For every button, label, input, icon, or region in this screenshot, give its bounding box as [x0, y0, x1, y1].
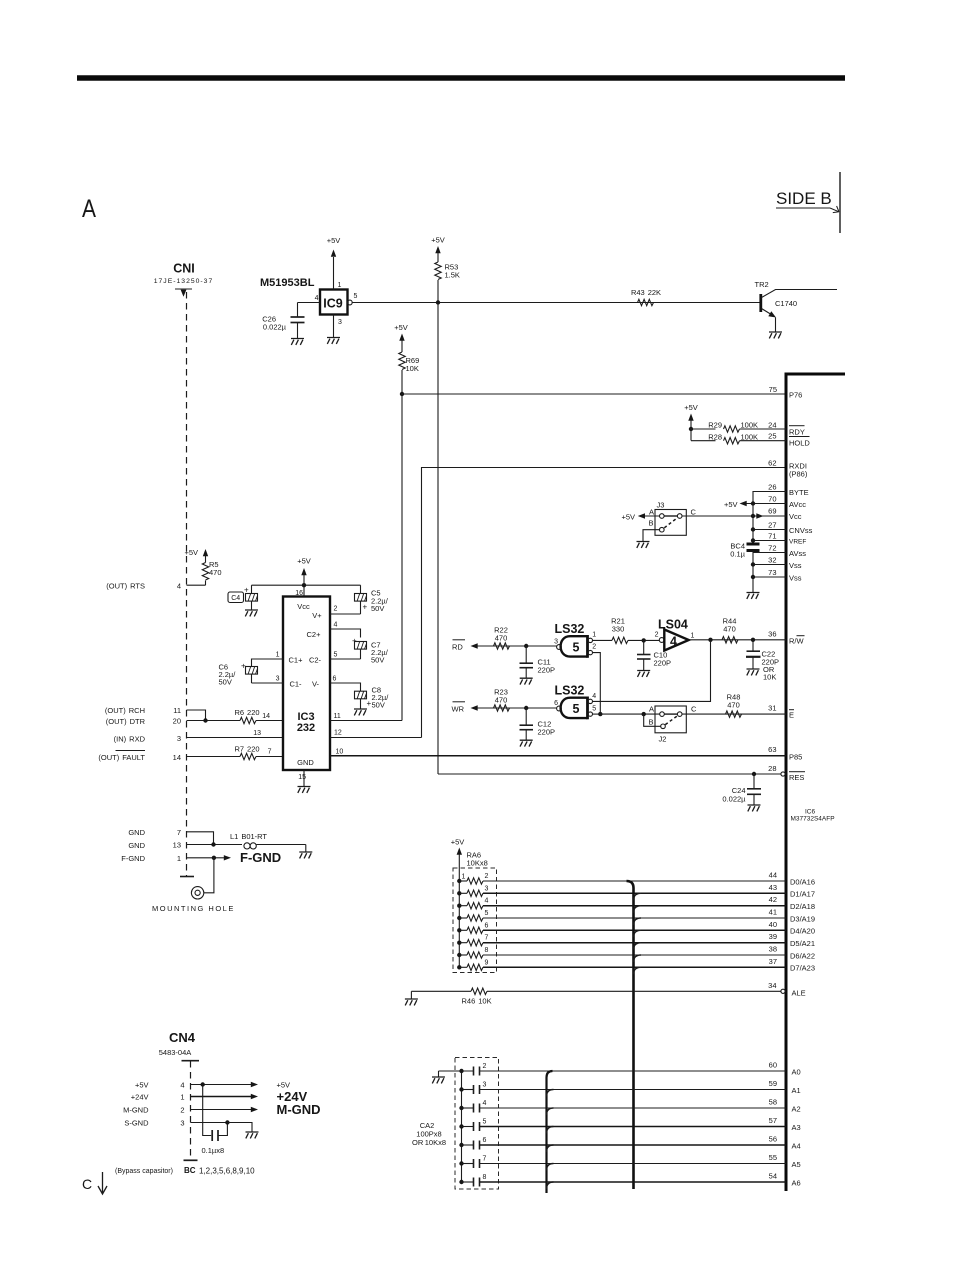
svg-text:14: 14 [173, 753, 181, 762]
bus trunk A [627, 881, 642, 1189]
svg-text:10K: 10K [406, 364, 419, 373]
svg-text:1: 1 [338, 282, 342, 289]
svg-text:+5V: +5V [297, 557, 311, 566]
CA2 capacitor 8 / wire A6 [462, 1174, 787, 1187]
pin 24 RDY [768, 421, 805, 437]
svg-text:13: 13 [253, 730, 261, 737]
ground after L1 [299, 845, 312, 859]
RA6 resistor 7 / wire D5 [459, 935, 786, 946]
svg-text:3: 3 [276, 676, 280, 683]
svg-text:RDY: RDY [789, 428, 805, 437]
junction J2 B branch [642, 712, 646, 716]
svg-text:5: 5 [573, 641, 580, 655]
svg-text:2: 2 [334, 606, 338, 613]
svg-text:R29: R29 [708, 421, 722, 430]
CA2 capacitor 4 / wire A2 [462, 1100, 787, 1113]
pin 60 A0 [769, 1061, 801, 1077]
jumper J2 [644, 705, 697, 744]
IC6 M37732S4AFP body edge [786, 374, 845, 1191]
ground ALE line [405, 991, 418, 1005]
pin 71 VREF [753, 532, 806, 546]
svg-text:0.1µx8: 0.1µx8 [202, 1146, 225, 1155]
svg-text:55: 55 [769, 1153, 777, 1162]
gate LS32 (5) lower [554, 684, 596, 720]
resistor R48 470 [726, 693, 742, 718]
CN1 pin 14 FAULT [98, 751, 240, 763]
svg-text:2: 2 [483, 1063, 487, 1070]
svg-text:C: C [691, 705, 697, 714]
svg-text:11: 11 [334, 713, 341, 720]
IC9 pin 3 ground [327, 315, 342, 344]
svg-text:IC6: IC6 [805, 809, 816, 816]
svg-text:232: 232 [297, 722, 315, 734]
svg-text:6: 6 [333, 676, 337, 683]
ground C22 [747, 669, 760, 675]
ground S-GND [227, 1123, 258, 1139]
svg-text:71: 71 [768, 532, 776, 541]
top rule [77, 75, 845, 81]
resistor R29 100K [691, 421, 786, 433]
RA6 resistor 9 / wire D7 [459, 959, 786, 970]
svg-text:37: 37 [769, 957, 777, 966]
CN1 pin 20 DTR [106, 717, 240, 726]
svg-text:R46 10K: R46 10K [462, 997, 492, 1006]
pin 38 D6/A22 [769, 945, 815, 961]
svg-text:CN4: CN4 [169, 1030, 196, 1045]
svg-text:100K: 100K [741, 421, 759, 430]
connector CN1 title [154, 262, 213, 297]
svg-text:0.022µ: 0.022µ [263, 323, 287, 332]
IC9 pin 4 wire [298, 295, 321, 303]
svg-text:14: 14 [262, 713, 270, 720]
CA2 capacitor 5 / wire A3 [462, 1119, 787, 1132]
svg-text:GND: GND [128, 828, 145, 837]
junction Vss-32 rail [751, 562, 755, 566]
svg-text:0.022µ: 0.022µ [722, 795, 746, 804]
svg-text:28: 28 [768, 764, 776, 773]
svg-text:11: 11 [173, 706, 181, 715]
junction F-GND [212, 856, 216, 860]
pin 39 D5/A21 [769, 932, 815, 948]
IC3 pin 3 [252, 676, 284, 684]
svg-text:17JE-13250-37: 17JE-13250-37 [154, 278, 213, 285]
F-GND net label arrow [216, 850, 281, 865]
CA2 junction dots [459, 1069, 463, 1184]
svg-text:(OUT) RCH: (OUT) RCH [105, 706, 145, 715]
svg-text:1: 1 [691, 633, 695, 640]
IC3 pin 2 / capacitor C5 2.2u 50V [330, 585, 389, 614]
svg-text:73: 73 [768, 568, 776, 577]
svg-text:1: 1 [592, 632, 596, 639]
svg-text:BYTE: BYTE [789, 488, 809, 497]
svg-text:50V: 50V [372, 701, 385, 710]
svg-text:1,2,3,5,6,8,9,10: 1,2,3,5,6,8,9,10 [199, 1167, 255, 1176]
svg-text:3: 3 [338, 319, 342, 326]
capacitor array CA2 100Px8 [412, 1058, 499, 1190]
wire P76 line [402, 393, 786, 395]
svg-text:+5V: +5V [621, 513, 635, 522]
junction CNVss rail [751, 527, 755, 531]
IC3 pin 5 [330, 652, 361, 660]
RA6 resistor 5 / wire D3 [459, 910, 786, 921]
svg-text:(OUT) RTS: (OUT) RTS [106, 582, 145, 591]
svg-text:+24V: +24V [131, 1093, 149, 1102]
svg-text:BC: BC [184, 1166, 196, 1175]
SIDE B header [776, 172, 840, 233]
svg-text:+5V: +5V [135, 1081, 149, 1090]
junction Vss-73 rail [751, 575, 755, 579]
svg-text:5: 5 [334, 652, 338, 659]
CN1 pin 7 GND [128, 828, 213, 845]
svg-text:GND: GND [297, 758, 314, 767]
svg-text:ALE: ALE [792, 988, 806, 997]
resistor R23 470 [494, 688, 510, 712]
CA2 capacitor 7 / wire A5 [462, 1156, 787, 1169]
ground C11 [520, 678, 533, 684]
svg-text:42: 42 [769, 895, 777, 904]
+5V arrow above IC3 [297, 557, 311, 586]
svg-text:A4: A4 [792, 1141, 801, 1150]
svg-text:100K: 100K [741, 432, 759, 441]
svg-text:SIDE B: SIDE B [776, 189, 832, 208]
svg-text:69: 69 [768, 507, 776, 516]
svg-text:4: 4 [670, 635, 677, 649]
pin 28 RES bubble [768, 764, 805, 782]
svg-text:31: 31 [768, 704, 776, 713]
svg-text:F-GND: F-GND [240, 850, 281, 865]
resistor R46 10K / ALE wire [411, 988, 781, 1005]
svg-text:LS32: LS32 [555, 684, 585, 698]
svg-text:8: 8 [483, 1174, 487, 1181]
svg-text:470: 470 [495, 633, 508, 642]
pin 36 R/W [768, 630, 804, 646]
svg-text:470: 470 [727, 700, 740, 709]
svg-text:+5V: +5V [724, 500, 738, 509]
svg-text:1: 1 [177, 854, 181, 863]
svg-text:HOLD: HOLD [789, 438, 810, 447]
inductor L1 B01-RT [230, 832, 306, 849]
svg-text:F-GND: F-GND [121, 854, 145, 863]
svg-text:OR 10Kx8: OR 10Kx8 [412, 1138, 446, 1147]
svg-text:Vcc: Vcc [789, 512, 802, 521]
svg-text:D5/A21: D5/A21 [790, 939, 815, 948]
IC3 pin 12 wire [330, 730, 422, 738]
svg-text:26: 26 [768, 483, 776, 492]
svg-text:8: 8 [485, 947, 489, 954]
svg-text:L1 B01-RT: L1 B01-RT [230, 832, 267, 841]
CN4 pin 2 M-GND [123, 1102, 320, 1117]
resistor R21 330 [611, 617, 659, 644]
pin 31 E [768, 704, 794, 720]
IC3 pin 6 / capacitor C8 2.2u 50V [330, 676, 389, 710]
resistor R6 220 [234, 708, 283, 724]
svg-text:3: 3 [554, 639, 558, 646]
capacitor C22 220P or 10K [746, 640, 779, 682]
pin 43 D1/A17 [769, 883, 815, 899]
svg-text:A5: A5 [792, 1160, 801, 1169]
junction Vcc rail [751, 514, 755, 518]
svg-text:57: 57 [769, 1116, 777, 1125]
svg-text:6: 6 [483, 1137, 487, 1144]
IC3 pin 11 wire [330, 713, 402, 721]
ground BC4/Vss [747, 593, 760, 599]
pin 27 CNVss [753, 521, 813, 536]
IC9 box [320, 290, 348, 315]
svg-text:A: A [82, 195, 96, 223]
junction to E gate branch [708, 638, 712, 642]
svg-text:75: 75 [769, 385, 777, 394]
svg-text:2: 2 [592, 644, 596, 651]
svg-text:7: 7 [485, 935, 489, 942]
svg-text:C1740: C1740 [775, 299, 797, 308]
pin 42 D2/A18 [769, 895, 815, 911]
svg-text:R/W: R/W [789, 637, 805, 646]
gate LS04 (4) inverter [655, 618, 695, 651]
wire LS32 upper pin2 down to lower pin5 [593, 653, 601, 715]
svg-text:(OUT) DTR: (OUT) DTR [106, 717, 146, 726]
pin 40 D4/A20 [769, 920, 815, 936]
svg-text:A: A [649, 508, 654, 517]
ground C12 [520, 740, 533, 746]
pin 34 ALE bubble [768, 981, 806, 997]
pin 57 A3 [769, 1116, 801, 1132]
svg-text:(IN) RXD: (IN) RXD [114, 734, 146, 743]
svg-text:5: 5 [354, 293, 358, 300]
svg-text:Vss: Vss [789, 574, 802, 583]
junction AVcc rail [751, 501, 755, 505]
svg-text:5: 5 [573, 702, 580, 716]
svg-text:220P: 220P [538, 728, 556, 737]
CN1 pin 13 GND [128, 841, 242, 850]
svg-text:4: 4 [315, 295, 319, 302]
svg-text:70: 70 [768, 495, 776, 504]
junction +5V/R29 [689, 427, 693, 431]
CN1 pin 11 RCH [105, 706, 206, 721]
svg-text:V-: V- [312, 680, 320, 689]
svg-text:3: 3 [180, 1119, 184, 1128]
mounting hole [152, 858, 235, 913]
svg-text:M-GND: M-GND [123, 1106, 149, 1115]
net WR label [452, 702, 557, 714]
resistor R44 470 [722, 617, 738, 644]
junction S-GND [225, 1120, 229, 1124]
svg-text:+5V: +5V [684, 403, 698, 412]
svg-text:MOUNTING HOLE: MOUNTING HOLE [152, 904, 235, 913]
svg-text:+5V: +5V [394, 323, 408, 332]
wire branch down to LS32 lower pin 4 [593, 640, 711, 702]
IC9 pin 1 +5V [327, 236, 342, 290]
+5V arrow at J3 A [621, 513, 659, 522]
svg-text:7: 7 [483, 1156, 487, 1163]
svg-text:+5V: +5V [451, 838, 465, 847]
CN1 pin 1 F-GND [121, 854, 216, 863]
ground J3 B [637, 530, 660, 548]
svg-text:7: 7 [268, 749, 272, 756]
svg-text:C: C [82, 1176, 92, 1192]
svg-text:2: 2 [485, 873, 489, 880]
junction C11 [524, 644, 528, 648]
CN4 pin 1 +24V [131, 1089, 308, 1104]
svg-text:10: 10 [336, 749, 344, 756]
svg-text:GND: GND [128, 841, 145, 850]
junction R53/reset line [436, 300, 440, 304]
pin 54 A6 [769, 1172, 801, 1188]
capacitor C11 220P [520, 646, 556, 678]
svg-text:Vcc: Vcc [297, 602, 310, 611]
junction C22 [751, 638, 755, 642]
wire lower pin5 junction [593, 713, 601, 715]
svg-text:D1/A17: D1/A17 [790, 890, 815, 899]
connector CN1 body (dashed) [180, 292, 194, 877]
bypass capacitor BC4 0.1u [730, 504, 759, 593]
svg-text:6: 6 [554, 700, 558, 707]
svg-text:(P86): (P86) [789, 469, 808, 478]
ground C24 [748, 805, 761, 811]
connector CN4 body (dashed) [184, 1061, 198, 1160]
svg-text:5483-04A: 5483-04A [159, 1048, 192, 1057]
junction C24 [752, 772, 756, 776]
svg-text:0.1µ: 0.1µ [730, 550, 745, 559]
svg-text:TR2: TR2 [755, 280, 769, 289]
net RD label [452, 640, 557, 652]
svg-text:63: 63 [768, 745, 776, 754]
svg-text:220P: 220P [654, 659, 672, 668]
CN1 pin 3 RXD [114, 734, 283, 743]
svg-text:(OUT) FAULT: (OUT) FAULT [98, 753, 145, 762]
ground C8 [354, 709, 367, 715]
svg-text:E: E [789, 711, 794, 720]
svg-text:32: 32 [768, 556, 776, 565]
svg-text:5: 5 [483, 1119, 487, 1126]
svg-text:D6/A22: D6/A22 [790, 951, 815, 960]
resistor array RA6 10Kx8 [451, 838, 497, 973]
capacitor C4 (boxed ref) [228, 585, 258, 609]
wire reset vertical to RES [437, 303, 439, 775]
svg-text:Vss: Vss [789, 561, 802, 570]
junction C12 [524, 706, 528, 710]
capacitor C26 0.022u [262, 303, 304, 339]
resistor R53 1.5K [431, 236, 460, 303]
bus trunk B [547, 1071, 554, 1193]
IC3 pin 4 / capacitor C7 2.2u 50V [330, 622, 389, 665]
pin 73 Vss [753, 568, 802, 583]
svg-text:R28: R28 [708, 432, 722, 441]
wire J2 C to R48 [682, 713, 786, 715]
svg-text:P85: P85 [789, 753, 802, 762]
svg-text:2: 2 [655, 632, 659, 639]
IC3 pin 15 ground [298, 770, 311, 793]
svg-text:12: 12 [334, 730, 342, 737]
svg-text:J3: J3 [657, 501, 665, 510]
junction GND7/GND13 [211, 842, 215, 846]
svg-text:+5V: +5V [327, 236, 341, 245]
wire LS04 output [689, 639, 786, 641]
svg-text:C1+: C1+ [289, 656, 304, 665]
wire RES row [438, 773, 781, 775]
svg-text:6: 6 [485, 922, 489, 929]
pin 63 P85 [768, 745, 802, 762]
svg-text:36: 36 [768, 630, 776, 639]
C (down) sheet pointer [82, 1172, 107, 1194]
pin 56 A4 [769, 1135, 801, 1151]
svg-text:3: 3 [177, 734, 181, 743]
IC3 pin 16 +5V rail [252, 585, 361, 597]
svg-text:D4/A20: D4/A20 [790, 927, 815, 936]
svg-text:C1-: C1- [289, 680, 302, 689]
svg-text:AVcc: AVcc [789, 500, 806, 509]
svg-text:62: 62 [768, 459, 776, 468]
ground C26 [291, 339, 304, 345]
junction RCH/DTR [203, 718, 207, 722]
svg-text:16: 16 [295, 590, 303, 597]
CN1 pin 4 RTS [106, 581, 205, 590]
svg-text:D2/A18: D2/A18 [790, 902, 815, 911]
svg-text:7: 7 [177, 828, 181, 837]
svg-text:B: B [648, 519, 653, 528]
svg-text:+5V: +5V [184, 548, 198, 557]
svg-text:25: 25 [768, 432, 776, 441]
pin 41 D3/A19 [769, 908, 815, 924]
wire E row [600, 713, 659, 715]
junction pin5/pin2 branch [598, 712, 602, 716]
junction IC3 Vcc rail [302, 583, 306, 587]
svg-text:A0: A0 [792, 1067, 801, 1076]
svg-text:3: 3 [485, 885, 489, 892]
svg-text:20: 20 [173, 717, 181, 726]
svg-text:15: 15 [298, 774, 306, 781]
svg-text:A3: A3 [792, 1123, 801, 1132]
svg-text:10Kx8: 10Kx8 [467, 859, 488, 868]
svg-text:CNVss: CNVss [789, 526, 813, 535]
svg-text:4: 4 [180, 1081, 184, 1090]
RA6 resistor 3 / wire D1 [459, 885, 786, 896]
resistor R43 22K [631, 288, 661, 306]
svg-text:5: 5 [485, 910, 489, 917]
svg-text:C: C [691, 508, 697, 517]
transistor TR2 C1740 [755, 280, 838, 332]
pin 44 D0/A16 [769, 871, 815, 887]
svg-text:60: 60 [769, 1061, 777, 1070]
svg-text:M-GND: M-GND [277, 1102, 321, 1117]
svg-text:J2: J2 [659, 735, 667, 744]
CA2 capacitor 6 / wire A4 [462, 1137, 787, 1150]
svg-text:A6: A6 [792, 1178, 801, 1187]
svg-text:3: 3 [483, 1082, 487, 1089]
RA6 resistor 6 / wire D4 [459, 922, 786, 933]
svg-text:1: 1 [462, 874, 466, 881]
RA6 resistor 8 / wire D6 [459, 947, 786, 958]
capacitor C10 220P [637, 640, 671, 670]
svg-text:72: 72 [768, 544, 776, 553]
svg-text:34: 34 [768, 981, 776, 990]
svg-text:2: 2 [180, 1106, 184, 1115]
wire LS32 pin1 to R21 [593, 639, 613, 641]
svg-text:1.5K: 1.5K [445, 271, 460, 280]
RA6 resistor 4 / wire D2 [459, 898, 786, 909]
pin 70 AVcc +5V [724, 495, 806, 510]
svg-text:1: 1 [180, 1093, 184, 1102]
svg-text:IC9: IC9 [323, 297, 343, 311]
svg-text:+5V: +5V [431, 236, 445, 245]
junction VREF rail [751, 538, 755, 542]
svg-text:D3/A19: D3/A19 [790, 914, 815, 923]
IC3 pin 1 / capacitor C6 2.2u 50V [219, 652, 284, 687]
svg-text:50V: 50V [371, 604, 384, 613]
svg-text:A: A [649, 705, 654, 714]
svg-text:59: 59 [769, 1079, 777, 1088]
pin 75 P76 [769, 385, 803, 400]
svg-text:4: 4 [334, 622, 338, 629]
